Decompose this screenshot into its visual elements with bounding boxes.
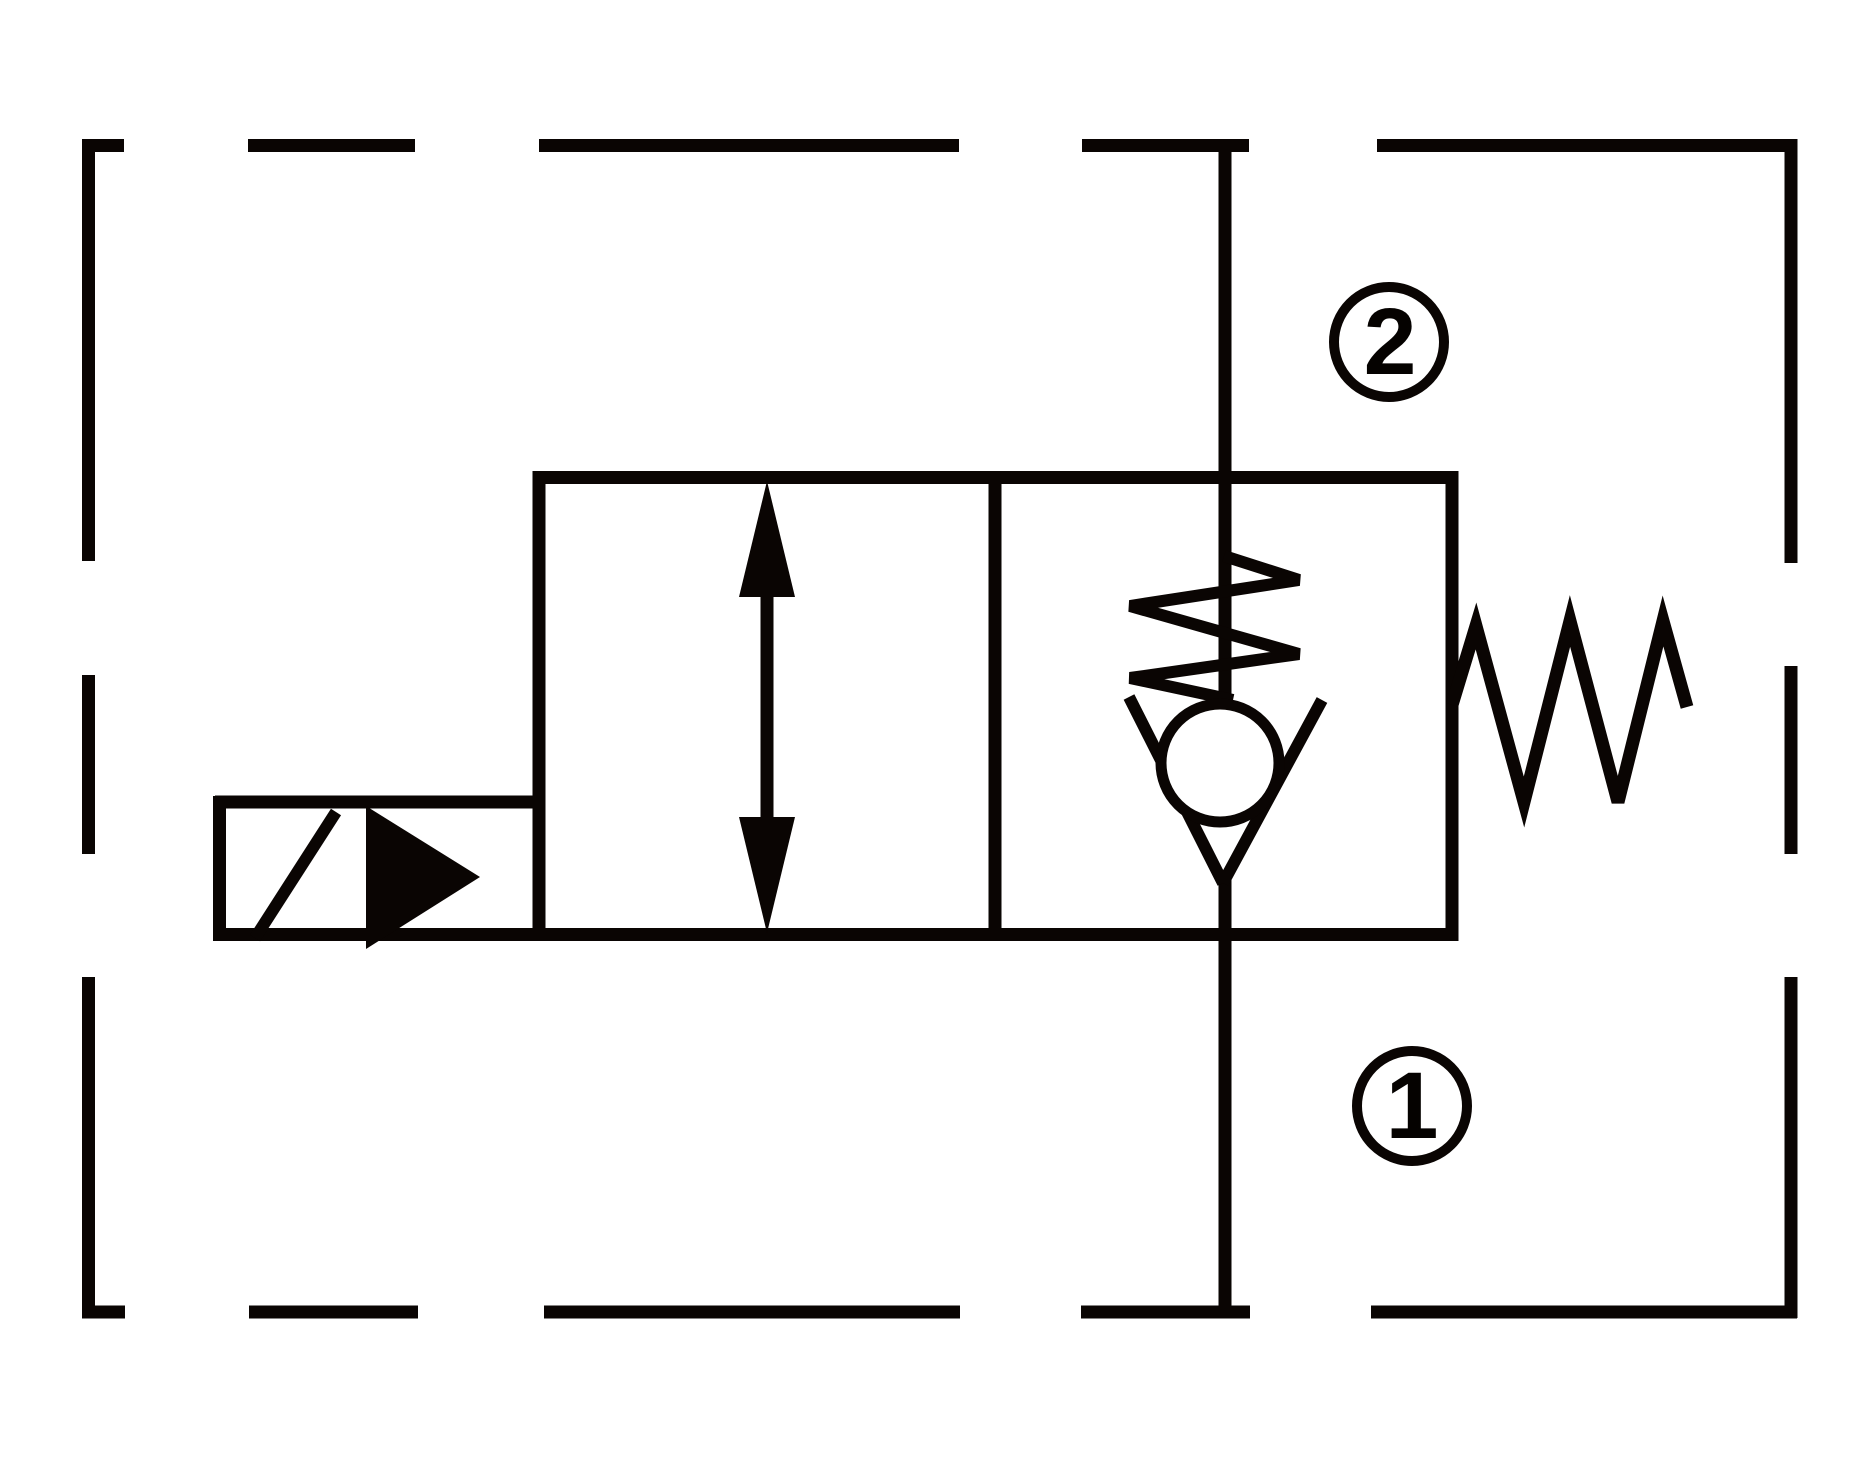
valve body two-position box (539, 478, 1452, 935)
envelope left dashed border (82, 139, 95, 1318)
envelope right dashed border (1785, 139, 1798, 1318)
flow path double arrow shaft (761, 595, 774, 819)
solenoid diagonal stroke (255, 812, 336, 938)
check valve seat (1129, 697, 1322, 883)
svg-text:1: 1 (1386, 1053, 1439, 1159)
svg-text:2: 2 (1364, 289, 1417, 395)
port 1 line (1219, 880, 1232, 1312)
flow arrow head down (739, 817, 795, 933)
check valve spring (1130, 556, 1299, 700)
envelope bottom dashed border (82, 1306, 1797, 1319)
flow arrow head up (739, 481, 795, 597)
valve position divider (989, 477, 1002, 934)
solenoid armature triangle (366, 806, 480, 949)
port label 1 circle (1357, 1051, 1467, 1161)
port label 2 circle (1334, 287, 1444, 397)
return spring (1452, 621, 1687, 802)
envelope top dashed border (87, 139, 1796, 152)
check valve ball (1161, 704, 1279, 822)
port 2 line (1219, 139, 1232, 701)
solenoid box (213, 796, 539, 941)
